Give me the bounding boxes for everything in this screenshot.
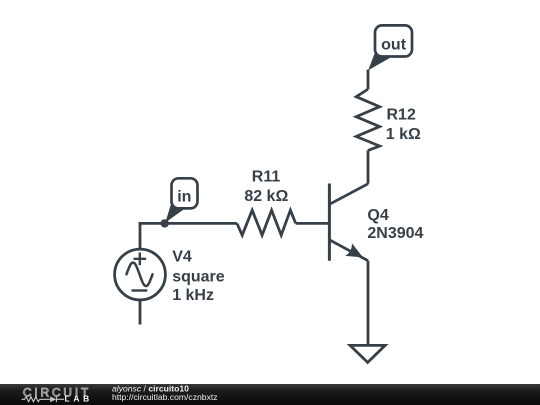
svg-text:1 kΩ: 1 kΩ [386,126,421,143]
wire: out label tail to R12 top [367,70,370,90]
node label "out" flag [368,25,412,70]
wire: V4 bottom stub [139,300,142,325]
svg-text:2N3904: 2N3904 [367,225,423,242]
voltage source V4 [115,249,166,300]
svg-text:LAB: LAB [65,394,93,404]
svg-text:82 kΩ: 82 kΩ [244,188,288,205]
svg-text:V4: V4 [172,248,192,265]
wire: node to R11 (base wire left) [139,222,237,225]
wire: V4 top to node wire [139,222,142,249]
svg-text:square: square [172,268,225,285]
node label "in" flag [165,178,197,222]
transistor Q4 [329,184,368,261]
wire: Q4 emitter to ground [367,261,370,346]
svg-text:R11: R11 [252,169,281,186]
node dot (in) [161,219,169,227]
svg-text:http://circuitlab.com/cznbxtz: http://circuitlab.com/cznbxtz [112,392,218,402]
CircuitLab logo resistor-diode waveform [22,396,65,402]
footer bar [0,384,540,405]
resistor R11 [237,210,296,235]
svg-text:1 kHz: 1 kHz [172,287,214,304]
wire: R12 bottom to Q4 collector [367,150,370,183]
svg-text:R12: R12 [387,107,416,124]
resistor R12 [356,89,379,150]
svg-text:in: in [177,189,191,206]
svg-text:out: out [381,37,407,54]
wire: R11 to Q4 base [296,222,330,225]
svg-text:Q4: Q4 [367,207,388,224]
ground [350,345,385,362]
